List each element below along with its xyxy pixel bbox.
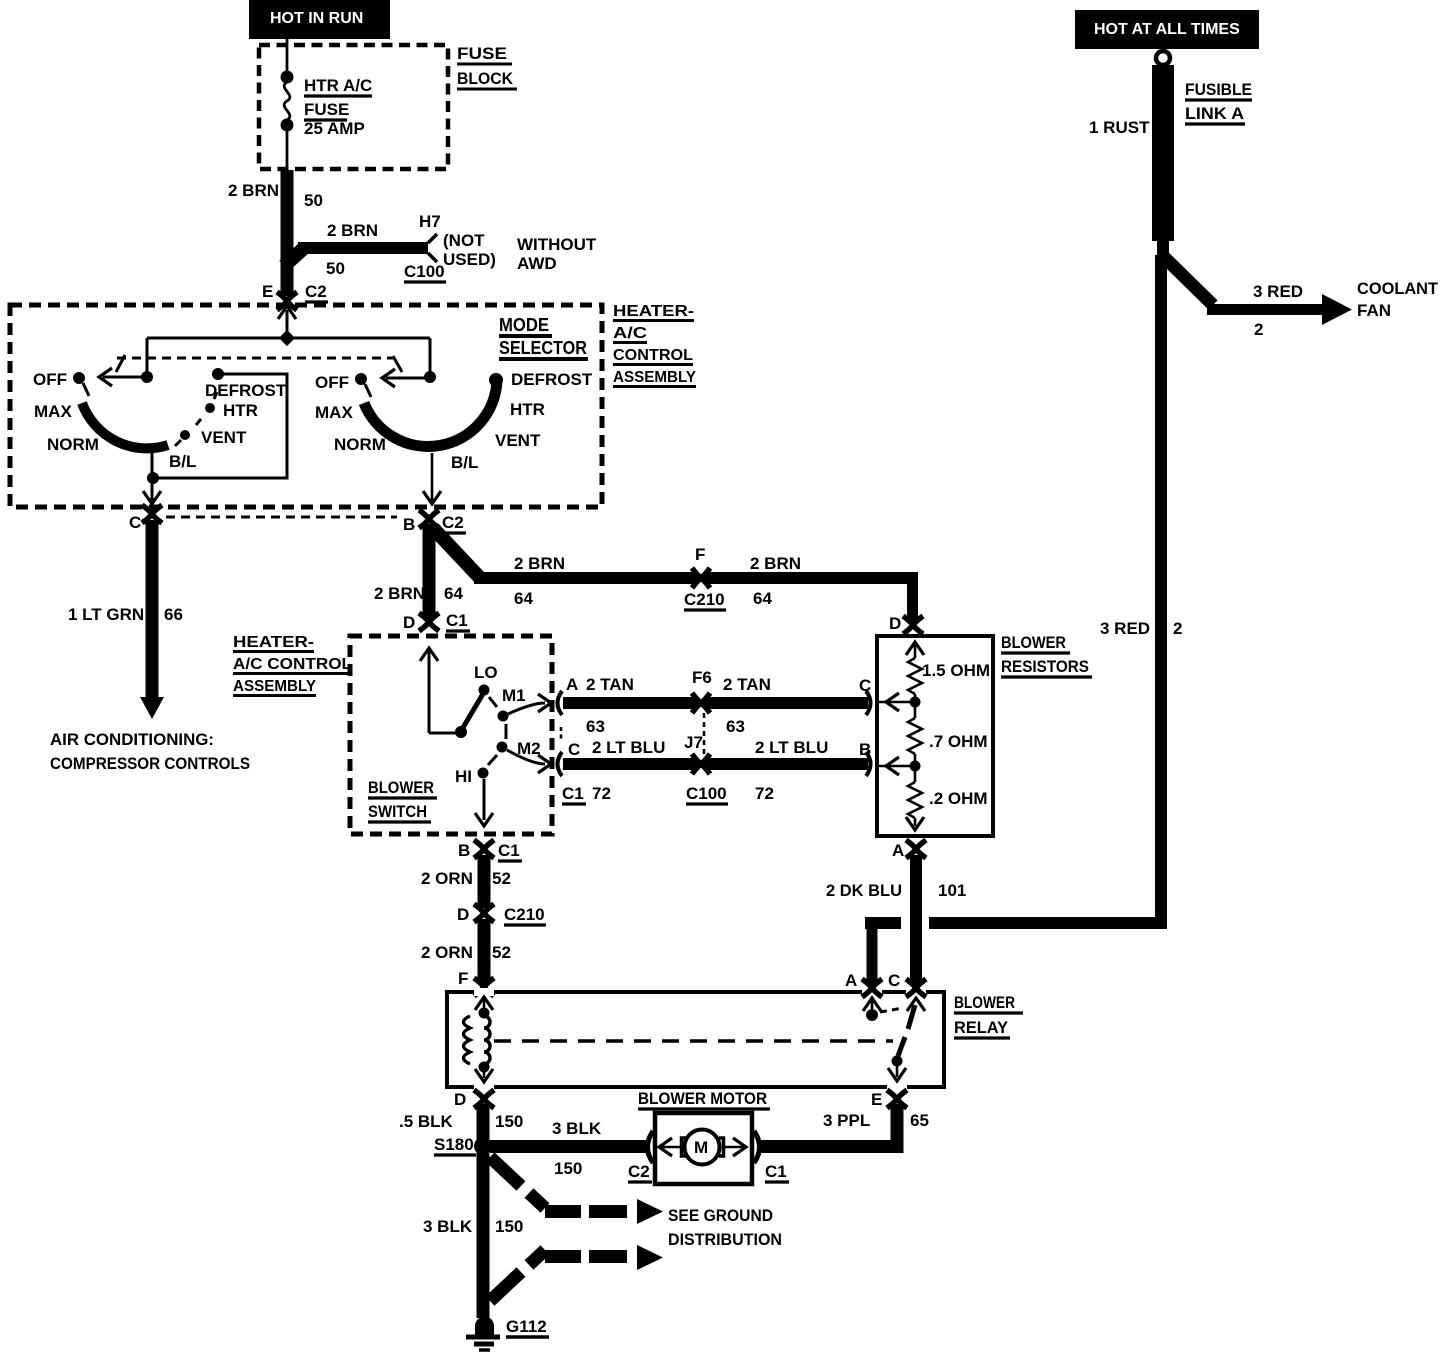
connector C2 at blower motor — [628, 1131, 653, 1182]
svg-text:OFF: OFF — [315, 373, 349, 392]
svg-text:E: E — [871, 1090, 882, 1109]
connector C below box — [129, 505, 162, 532]
svg-text:25 AMP: 25 AMP — [304, 119, 365, 138]
blower switch internals — [420, 648, 551, 826]
wire 2 LT BLU 72 (C to B) — [558, 738, 871, 804]
left mode switch — [73, 368, 224, 448]
svg-text:M: M — [694, 1138, 708, 1157]
svg-text:101: 101 — [938, 881, 966, 900]
svg-text:2 BRN: 2 BRN — [228, 181, 279, 200]
label AIR CONDITIONING: COMPRESSOR CONTROLS — [50, 730, 250, 773]
resistor .2 OHM — [906, 766, 988, 830]
svg-text:B: B — [403, 515, 415, 534]
blower switch dashed box — [350, 636, 552, 834]
svg-text:MODE: MODE — [499, 315, 549, 335]
svg-text:C100: C100 — [686, 784, 727, 803]
svg-text:1 LT GRN: 1 LT GRN — [68, 605, 144, 624]
connector F C210 on horizontal run — [684, 545, 726, 610]
connector D below relay — [474, 1090, 494, 1108]
fuse block dashed box — [259, 45, 448, 169]
svg-text:HTR: HTR — [510, 400, 545, 419]
svg-text:2 BRN: 2 BRN — [374, 584, 425, 603]
svg-text:F: F — [695, 545, 705, 564]
svg-text:A/C CONTROL: A/C CONTROL — [233, 656, 352, 673]
svg-text:SELECTOR: SELECTOR — [499, 338, 587, 358]
svg-text:3 RED: 3 RED — [1100, 619, 1150, 638]
svg-text:LO: LO — [474, 663, 498, 682]
svg-text:WITHOUT: WITHOUT — [517, 235, 597, 254]
svg-text:50: 50 — [326, 259, 345, 278]
svg-text:FUSE: FUSE — [304, 100, 349, 119]
wire feed to both switches — [147, 310, 430, 374]
splice S180 — [434, 1135, 492, 1155]
svg-text:2 LT BLU: 2 LT BLU — [755, 738, 828, 757]
fuse HTR A/C 25 AMP — [281, 39, 373, 172]
svg-text:VENT: VENT — [201, 428, 247, 447]
svg-text:A: A — [566, 675, 578, 694]
svg-text:2 BRN: 2 BRN — [327, 221, 378, 240]
svg-text:52: 52 — [492, 943, 511, 962]
connector C above relay — [906, 979, 926, 997]
connector D C210 — [457, 904, 546, 925]
svg-text:NORM: NORM — [334, 435, 386, 454]
resistor .7 OHM — [908, 702, 988, 766]
heater-A/C control assembly dashed box (mode selector) — [10, 305, 602, 507]
connector F6 C100 on wire 2 TAN — [692, 668, 712, 713]
svg-text:M2: M2 — [517, 739, 541, 758]
wire 3 BLK 150 S180 to blower motor — [490, 1119, 650, 1178]
svg-text:HTR A/C: HTR A/C — [304, 76, 372, 95]
svg-text:C2: C2 — [628, 1162, 650, 1181]
svg-text:J7: J7 — [684, 733, 703, 752]
svg-text:CONTROL: CONTROL — [613, 347, 693, 364]
svg-text:D: D — [403, 613, 415, 632]
left switch labels — [33, 370, 287, 471]
svg-text:D: D — [454, 1090, 466, 1109]
label COOLANT FAN — [1357, 279, 1439, 320]
ground branch 2 — [490, 1245, 663, 1301]
svg-text:C1: C1 — [765, 1162, 787, 1181]
svg-text:ASSEMBLY: ASSEMBLY — [233, 678, 316, 695]
svg-text:72: 72 — [592, 784, 611, 803]
svg-text:.5 BLK: .5 BLK — [399, 1112, 454, 1131]
svg-text:D: D — [457, 905, 469, 924]
connector F at relay — [458, 969, 494, 996]
svg-text:AIR CONDITIONING:: AIR CONDITIONING: — [50, 730, 214, 749]
svg-text:C2: C2 — [305, 282, 327, 301]
svg-text:3 BLK: 3 BLK — [423, 1217, 473, 1236]
svg-text:B/L: B/L — [451, 453, 478, 472]
label FUSE BLOCK — [457, 44, 517, 89]
svg-text:A: A — [845, 971, 857, 990]
svg-text:M1: M1 — [502, 686, 526, 705]
svg-text:COOLANT: COOLANT — [1357, 279, 1439, 298]
svg-text:BLOWER: BLOWER — [1001, 633, 1066, 652]
svg-text:2: 2 — [1173, 619, 1182, 638]
svg-text:65: 65 — [910, 1111, 929, 1130]
svg-text:A/C: A/C — [613, 325, 648, 342]
svg-text:66: 66 — [164, 605, 183, 624]
label BLOWER RELAY — [954, 993, 1023, 1038]
connector E C2 — [262, 282, 328, 310]
node B junction in resistors — [859, 740, 921, 775]
svg-text:HEATER-: HEATER- — [233, 634, 314, 651]
svg-text:C210: C210 — [684, 590, 725, 609]
svg-text:RELAY: RELAY — [954, 1018, 1009, 1037]
wire 3 PPL 65 motor to relay E — [760, 1104, 929, 1153]
svg-text:2 TAN: 2 TAN — [723, 675, 771, 694]
blower resistors box — [877, 636, 993, 836]
svg-text:H7: H7 — [419, 212, 441, 231]
svg-text:1 RUST: 1 RUST — [1089, 118, 1150, 137]
svg-text:C: C — [568, 740, 580, 759]
blower motor M — [655, 1113, 752, 1184]
wire .5 BLK 150 to S180 — [399, 1104, 523, 1146]
relay contact A — [863, 998, 903, 1021]
svg-text:DISTRIBUTION: DISTRIBUTION — [668, 1230, 782, 1249]
svg-text:2 TAN: 2 TAN — [586, 675, 634, 694]
wire 3 RED 2 down right side — [865, 255, 1182, 985]
svg-text:3 BLK: 3 BLK — [552, 1119, 602, 1138]
svg-text:3 RED: 3 RED — [1253, 282, 1303, 301]
svg-text:150: 150 — [554, 1159, 582, 1178]
svg-text:B: B — [859, 740, 871, 759]
svg-text:C: C — [859, 676, 871, 695]
switch side terminals A C C1 — [561, 675, 580, 759]
wire 2 DK BLU 101 — [826, 855, 966, 986]
svg-text:NORM: NORM — [47, 435, 99, 454]
svg-text:BLOWER: BLOWER — [368, 778, 434, 797]
wire branch 2 BRN 50 to H7 C100 not used — [284, 212, 496, 282]
svg-text:LINK A: LINK A — [1185, 104, 1244, 123]
svg-text:C210: C210 — [504, 905, 545, 924]
svg-text:AWD: AWD — [517, 254, 557, 273]
svg-text:F: F — [458, 969, 468, 988]
relay terminal labels — [454, 971, 900, 1109]
dashed gang line between switch wipers — [116, 355, 402, 372]
svg-text:C: C — [129, 513, 141, 532]
connector D C1 at blower switch — [403, 611, 470, 632]
wire 3 BLK 150 S180 to ground — [423, 1150, 523, 1318]
svg-text:52: 52 — [492, 869, 511, 888]
svg-text:F6: F6 — [692, 668, 712, 687]
connector B C1 below blower switch — [458, 840, 522, 861]
svg-text:C2: C2 — [442, 513, 464, 532]
connector D at blower resistors — [889, 614, 923, 634]
svg-text:HI: HI — [455, 767, 472, 786]
label HEATER- A/C CONTROL ASSEMBLY (left of blower switch) — [233, 634, 352, 696]
svg-text:HTR: HTR — [223, 401, 258, 420]
ground G112 — [466, 1317, 549, 1351]
svg-text:(NOT: (NOT — [443, 231, 485, 250]
svg-text:2 LT BLU: 2 LT BLU — [592, 738, 665, 757]
svg-text:FAN: FAN — [1357, 301, 1391, 320]
label MODE SELECTOR — [499, 315, 588, 359]
svg-text:.7 OHM: .7 OHM — [929, 732, 988, 751]
svg-text:64: 64 — [753, 589, 772, 608]
svg-text:S180: S180 — [434, 1135, 474, 1154]
relay coil — [464, 997, 494, 1082]
wire 2 ORN 52 from blower switch B — [421, 855, 511, 908]
svg-text:2 BRN: 2 BRN — [514, 554, 565, 573]
wire 2 BRN 64 diagonal and horizontal run to blower resistors — [433, 528, 918, 622]
svg-text:USED): USED) — [443, 250, 496, 269]
node C junction in resistors — [859, 676, 921, 711]
svg-text:VENT: VENT — [495, 431, 541, 450]
label WITHOUT AWD — [517, 235, 597, 273]
svg-text:MAX: MAX — [34, 402, 72, 421]
svg-text:OFF: OFF — [33, 370, 67, 389]
svg-text:C: C — [888, 971, 900, 990]
svg-text:MAX: MAX — [315, 403, 353, 422]
svg-text:C1: C1 — [446, 611, 468, 630]
wire 2 BRN 64 vertical B to D — [374, 524, 463, 618]
svg-text:64: 64 — [444, 584, 463, 603]
svg-text:63: 63 — [586, 717, 605, 736]
right switch labels — [315, 370, 593, 472]
power label HOT IN RUN — [249, 0, 390, 39]
svg-text:C1: C1 — [498, 841, 520, 860]
svg-text:150: 150 — [495, 1217, 523, 1236]
fusible link A — [1089, 51, 1252, 257]
svg-text:C100: C100 — [404, 262, 445, 281]
wire 2 ORN 52 to relay F — [421, 919, 511, 983]
svg-text:64: 64 — [514, 589, 533, 608]
svg-text:HOT IN RUN: HOT IN RUN — [270, 10, 363, 27]
svg-text:2 DK BLU: 2 DK BLU — [826, 881, 902, 900]
entry arrow from C2 into box — [278, 306, 296, 319]
svg-text:SWITCH: SWITCH — [368, 802, 427, 821]
svg-text:FUSIBLE: FUSIBLE — [1185, 80, 1252, 99]
svg-text:50: 50 — [304, 191, 323, 210]
label BLOWER RESISTORS — [1001, 633, 1092, 677]
right mode switch — [355, 369, 503, 504]
label SEE GROUND DISTRIBUTION — [668, 1206, 782, 1249]
label BLOWER SWITCH — [368, 778, 437, 822]
svg-text:G112: G112 — [506, 1317, 547, 1336]
svg-text:BLOWER: BLOWER — [954, 993, 1015, 1012]
svg-text:B/L: B/L — [169, 452, 196, 471]
relay mechanical dashed link — [494, 1039, 893, 1043]
svg-text:3 PPL: 3 PPL — [823, 1111, 870, 1130]
label HEATER- A/C CONTROL ASSEMBLY (right) — [613, 303, 696, 387]
connector C1 at blower motor — [754, 1131, 789, 1182]
left switch defrost loop wire — [143, 374, 287, 504]
svg-text:1.5 OHM: 1.5 OHM — [922, 661, 990, 680]
svg-text:DEFROST: DEFROST — [511, 370, 593, 389]
blower relay box — [447, 988, 944, 1091]
svg-text:2 BRN: 2 BRN — [750, 554, 801, 573]
label BLOWER MOTOR — [638, 1089, 770, 1109]
wire 3 RED 2 branch to coolant fan — [1163, 256, 1352, 339]
svg-text:D: D — [889, 614, 901, 633]
ground branch 1 to see ground distribution — [490, 1157, 663, 1224]
svg-text:HOT AT ALL TIMES: HOT AT ALL TIMES — [1094, 21, 1240, 38]
svg-text:RESISTORS: RESISTORS — [1001, 657, 1089, 676]
svg-text:2 ORN: 2 ORN — [421, 869, 473, 888]
svg-text:SEE GROUND: SEE GROUND — [668, 1206, 773, 1225]
svg-text:E: E — [262, 282, 273, 301]
svg-text:A: A — [892, 841, 904, 860]
connector A at blower resistors — [892, 840, 926, 860]
svg-text:ASSEMBLY: ASSEMBLY — [613, 369, 696, 386]
svg-text:C1: C1 — [562, 784, 584, 803]
svg-text:COMPRESSOR CONTROLS: COMPRESSOR CONTROLS — [50, 754, 250, 773]
svg-text:2 ORN: 2 ORN — [421, 943, 473, 962]
wire 1 LT GRN 66 — [68, 520, 183, 719]
svg-text:150: 150 — [495, 1112, 523, 1131]
connector E below relay — [887, 1090, 907, 1108]
svg-text:72: 72 — [755, 784, 774, 803]
svg-text:BLOWER MOTOR: BLOWER MOTOR — [638, 1089, 767, 1108]
wire 2 TAN 63 (A to C) — [558, 675, 871, 736]
resistor 1.5 OHM — [906, 642, 990, 702]
power label HOT AT ALL TIMES — [1075, 10, 1259, 49]
connector B C2 below box — [403, 510, 466, 534]
relay switch arm C to E — [888, 998, 925, 1081]
dashed stub below box bottom — [166, 516, 397, 519]
svg-text:B: B — [458, 841, 470, 860]
svg-text:FUSE: FUSE — [457, 44, 507, 63]
svg-text:DEFROST: DEFROST — [205, 381, 287, 400]
svg-text:63: 63 — [726, 717, 745, 736]
connector A above relay — [862, 979, 882, 997]
connector J7 C100 on wire 2 LT BLU — [684, 713, 728, 804]
wire 2 BRN 50 from fuse to C2 — [228, 170, 323, 296]
svg-text:.2 OHM: .2 OHM — [929, 789, 988, 808]
svg-text:HEATER-: HEATER- — [613, 303, 694, 320]
svg-text:BLOCK: BLOCK — [457, 69, 514, 88]
svg-text:2: 2 — [1254, 320, 1263, 339]
